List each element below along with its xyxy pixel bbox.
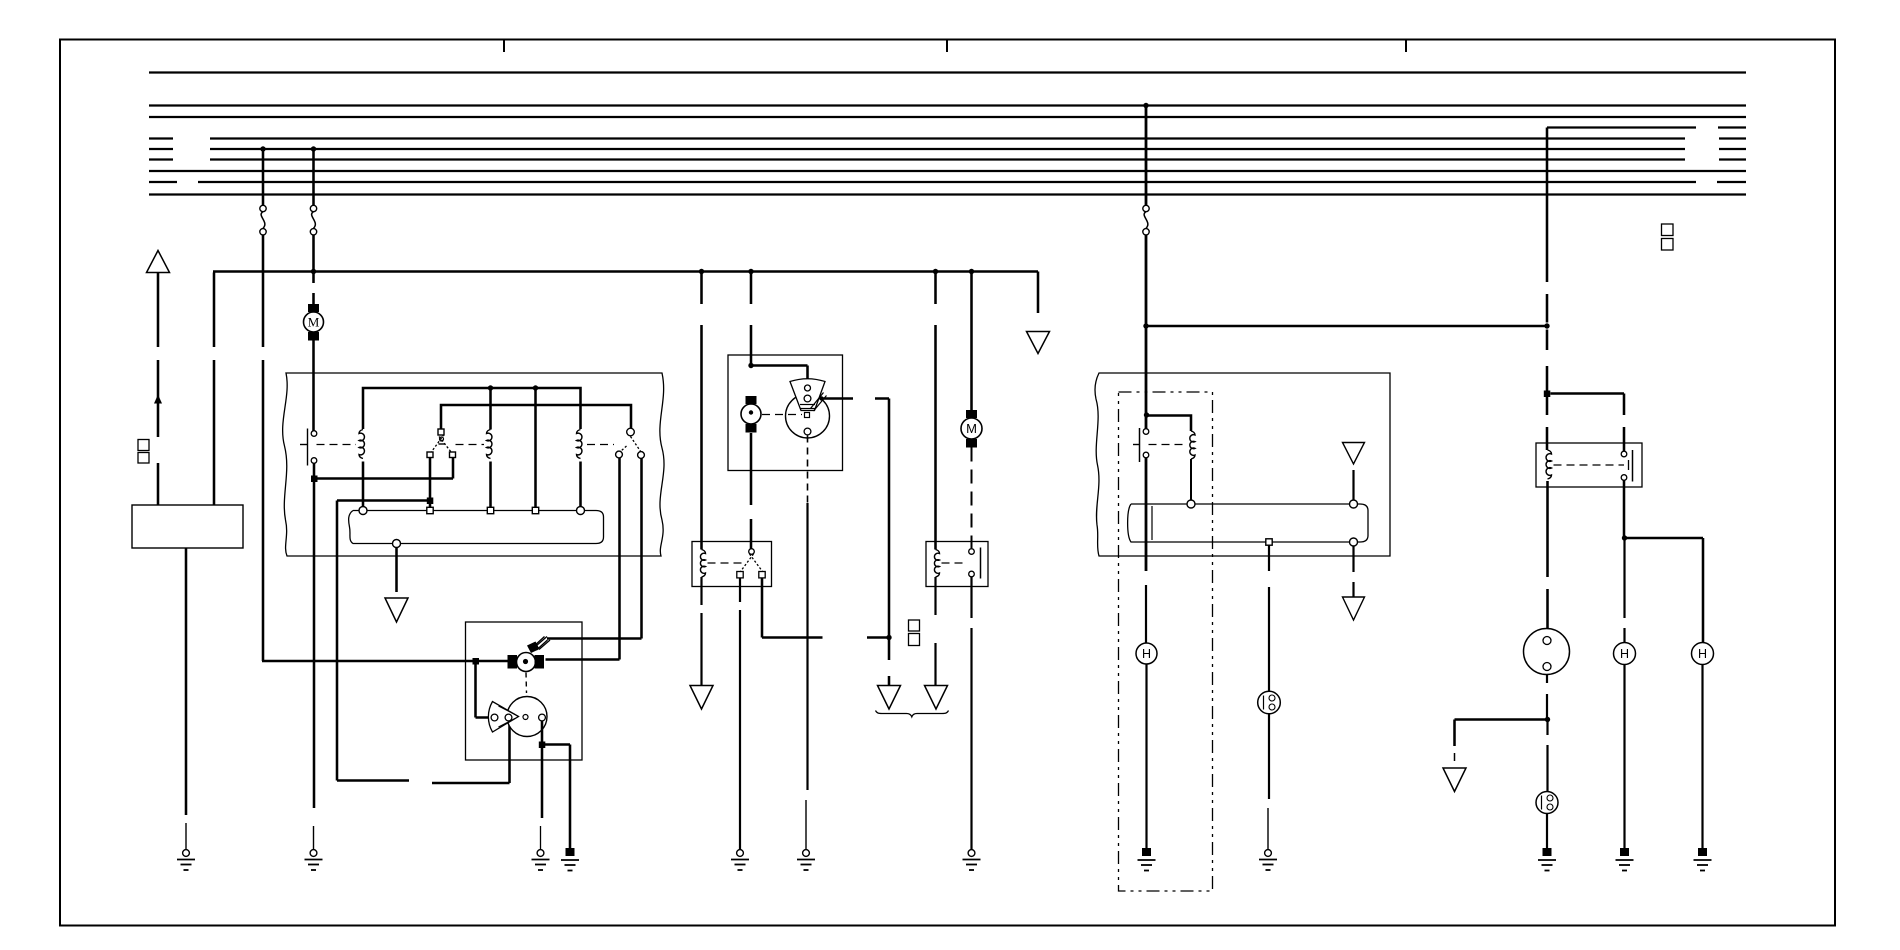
svg-text:M: M xyxy=(308,315,320,330)
svg-text:H: H xyxy=(1620,647,1629,661)
svg-text:M: M xyxy=(966,421,977,436)
svg-text:H: H xyxy=(1698,647,1707,661)
svg-text:H: H xyxy=(1142,647,1151,661)
